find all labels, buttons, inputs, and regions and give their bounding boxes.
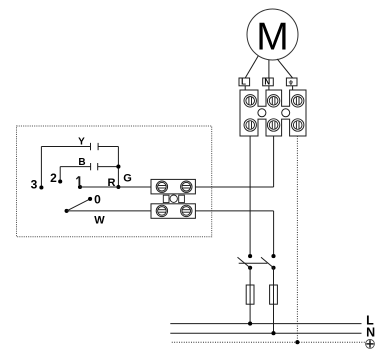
switch S2 upper contact xyxy=(271,254,275,258)
wire 3 vertical xyxy=(40,147,42,188)
node 3 xyxy=(39,185,43,189)
wire W down to switch xyxy=(273,211,275,256)
wire N box to block xyxy=(268,86,270,90)
wire TB1 col1 down to switch xyxy=(249,136,251,256)
wire S1 to fuse F1 xyxy=(249,268,251,324)
switch S1 lower contact xyxy=(248,266,252,270)
wire TB3 right horizontal xyxy=(195,210,273,212)
supply line N xyxy=(170,332,361,334)
svg-text:N: N xyxy=(264,78,270,87)
wire S2 to fuse F2 xyxy=(273,268,275,333)
switch S2 blade xyxy=(261,257,274,268)
fuse F2 xyxy=(270,285,278,304)
terminal block TB2 top body xyxy=(151,179,195,194)
svg-text:N: N xyxy=(366,326,375,340)
wire motor to earth box xyxy=(277,59,292,78)
switch arm pivot node xyxy=(65,209,69,213)
TB1 screw E bottom xyxy=(292,119,304,131)
supply earth dotted line xyxy=(172,341,366,343)
TB2 hole xyxy=(170,195,177,202)
terminal block TB1 outline xyxy=(240,90,306,136)
switch S1 upper contact xyxy=(248,254,252,258)
TB1 screw L bottom xyxy=(244,119,256,131)
switch coupling bar xyxy=(239,262,268,264)
TB2 bridge left tab xyxy=(163,195,169,202)
svg-text:2: 2 xyxy=(50,171,57,185)
svg-text:R: R xyxy=(108,177,116,189)
node R-G junction xyxy=(116,185,120,189)
B connector tick right xyxy=(97,163,99,170)
svg-text:G: G xyxy=(123,173,132,185)
TB1 hole left xyxy=(258,109,266,117)
switch S1 blade xyxy=(238,257,251,268)
wire TB1 col2 down xyxy=(273,136,275,187)
wire B left segment xyxy=(60,166,90,168)
dashed enclosure (cord switch unit) xyxy=(17,126,212,237)
earth symbol cross xyxy=(367,341,373,347)
TB1 screw N top xyxy=(267,95,279,107)
wire R line xyxy=(80,186,151,188)
earth dotted wire down xyxy=(296,136,298,342)
B connector tick left xyxy=(90,163,92,170)
wire B right segment xyxy=(98,166,119,168)
node 2 xyxy=(58,179,62,183)
terminal tag N xyxy=(263,78,274,86)
terminal tag earth xyxy=(286,78,297,86)
TB3 screw right xyxy=(181,205,192,216)
wire Y right segment xyxy=(98,146,118,148)
wire L box to block xyxy=(244,86,246,90)
svg-text:0: 0 xyxy=(94,193,101,207)
svg-text:W: W xyxy=(94,215,105,227)
node fuse2 to N xyxy=(271,331,275,335)
supply line L xyxy=(170,323,361,325)
motor M circle xyxy=(247,9,298,60)
wire earth box to block xyxy=(292,86,294,90)
svg-text:Y: Y xyxy=(78,137,85,148)
switch arm blade xyxy=(67,199,91,211)
svg-text:3: 3 xyxy=(31,178,38,192)
wire Y left segment xyxy=(41,146,90,148)
svg-text:M: M xyxy=(256,15,289,58)
terminal block TB3 bottom body xyxy=(151,204,195,219)
node B-G junction xyxy=(116,165,120,169)
wire W line xyxy=(67,210,151,212)
label 1 xyxy=(78,176,80,185)
TB3 screw left xyxy=(156,205,167,216)
TB1 hole right xyxy=(282,109,290,117)
fuse F1 xyxy=(246,285,254,304)
TB2 screw right xyxy=(181,181,192,192)
node 0 xyxy=(88,197,92,201)
wire 2 vertical xyxy=(59,167,61,182)
TB1 screw L top xyxy=(244,95,256,107)
TB2 bridge right tab xyxy=(179,195,185,202)
node earth junction xyxy=(295,340,299,344)
wire motor to N box xyxy=(268,60,270,78)
node 1 xyxy=(78,185,82,189)
earth symbol circle xyxy=(366,340,375,349)
TB2 screw left xyxy=(156,181,167,192)
wire G vertical xyxy=(117,147,119,188)
switch S2 lower contact xyxy=(271,266,275,270)
wire TB2 right to col2 xyxy=(195,186,273,188)
Y connector tick right xyxy=(97,143,99,150)
Y connector tick left xyxy=(90,143,92,150)
svg-text:B: B xyxy=(78,157,85,168)
node fuse1 to L xyxy=(248,322,252,326)
TB1 screw N bottom xyxy=(267,119,279,131)
wire motor to L box xyxy=(245,56,258,78)
svg-text:L: L xyxy=(241,78,246,87)
terminal tag L xyxy=(239,78,250,86)
TB1 screw E top xyxy=(292,95,304,107)
